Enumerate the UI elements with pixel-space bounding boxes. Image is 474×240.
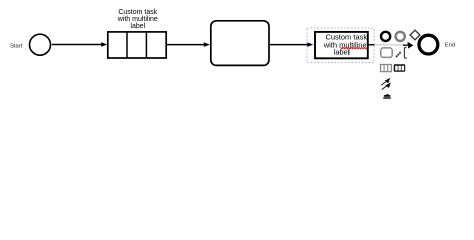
svg-text:Start: Start	[10, 43, 23, 49]
svg-text:label: label	[130, 23, 145, 30]
svg-text:with multiline: with multiline	[117, 16, 158, 23]
svg-text:End: End	[445, 43, 455, 49]
svg-text:Custom task: Custom task	[118, 9, 157, 16]
